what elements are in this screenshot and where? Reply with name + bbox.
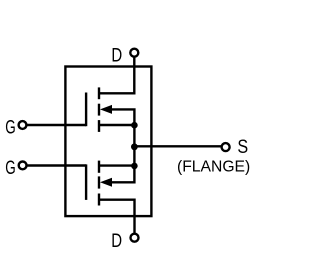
transistor Q1 gate electrode (85, 93, 87, 127)
transistor Q2 drain contact bar (98, 194, 100, 206)
wire D1 lead: top drain terminal to Q1 drain (99, 57, 134, 93)
transistor Q2 body arrow (100, 178, 112, 187)
terminal S (source / flange pin) (222, 143, 230, 151)
terminal G2 (gate 2 pin) (19, 162, 27, 170)
transistor Q1 body contact bar (98, 104, 100, 116)
wire Q1 body to source node (110, 109, 134, 125)
svg-text:D: D (111, 229, 122, 251)
transistor Q1 body arrow (100, 105, 112, 114)
svg-text:(FLANGE): (FLANGE) (177, 158, 250, 175)
package outline (65, 67, 151, 217)
wire Q2 body tie (110, 166, 134, 183)
svg-text:D: D (111, 44, 122, 66)
terminal D2 (bottom drain pin) (131, 234, 139, 242)
junction dot: Q2 source / body node (131, 163, 138, 170)
wire D2 lead: Q2 drain to bottom drain terminal (99, 200, 135, 234)
transistor Q1 drain contact bar (98, 87, 100, 99)
svg-text:G: G (5, 116, 15, 138)
wire G2 lead: gate 2 terminal to Q2 gate (27, 164, 86, 166)
transistor Q1 source contact bar (98, 120, 100, 132)
wire Q1 source to node S (99, 125, 134, 146)
wire node S to Q2 source (99, 146, 134, 165)
transistor Q2 gate electrode (85, 164, 87, 200)
junction dot: common source node S (131, 143, 138, 150)
wire G1 lead: gate 1 terminal to Q1 gate (27, 124, 87, 126)
svg-text:G: G (5, 156, 15, 178)
terminal G1 (gate 1 pin) (19, 121, 27, 129)
transistor Q2 body contact bar (98, 176, 100, 188)
wire S output: common source node to S terminal (134, 145, 221, 147)
terminal D1 (top drain pin) (130, 49, 138, 57)
transistor Q2 source contact bar (98, 161, 100, 173)
junction dot: Q1 source / body node (131, 122, 138, 129)
svg-text:S: S (237, 136, 248, 158)
